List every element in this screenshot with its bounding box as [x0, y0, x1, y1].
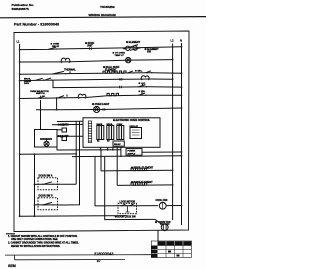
switch door 2: [42, 202, 54, 205]
wire EOC feeds from top left: [57, 120, 83, 122]
table stub line: [157, 230, 159, 241]
notes text: [8, 235, 79, 248]
connector marks rung5: [120, 86, 122, 89]
wire bottom long rung: [20, 215, 128, 218]
label surface unit: [85, 42, 95, 48]
breaker hump on rung6: [78, 94, 86, 98]
svg-text:K1: K1: [97, 141, 99, 143]
svg-text:✱ OVEN LIGHT: ✱ OVEN LIGHT: [92, 103, 110, 106]
switch S1 on rung1: [49, 47, 58, 50]
svg-text:BAKE: BAKE: [97, 123, 103, 126]
wire riser x104.7: [105, 157, 150, 220]
wire rung 1: [20, 47, 182, 50]
junction rung2-L2: [172, 59, 174, 61]
svg-text:CONV: CONV: [117, 124, 123, 126]
svg-text:✱ ELEMENT: ✱ ELEMENT: [126, 41, 141, 44]
switch on rung3 right: [128, 71, 135, 74]
wire L1 bus: [19, 44, 21, 216]
svg-text:SUPPLY: SUPPLY: [128, 153, 136, 155]
notes dash: [6, 233, 15, 235]
junction rung1-L1: [19, 49, 21, 51]
wire bake element rung: [117, 184, 172, 187]
junction y154 x76: [75, 153, 77, 155]
wire fan to N: [166, 205, 181, 207]
junction lamp rung N: [181, 107, 183, 109]
wire lampbox top stub: [57, 129, 62, 131]
svg-text:ELECTRONIC OVEN CONTROL: ELECTRONIC OVEN CONTROL: [113, 119, 151, 122]
svg-text:240V: 240V: [24, 82, 30, 85]
wire oven lamp rung: [36, 108, 182, 110]
oven lamp assembly box: [35, 130, 58, 148]
svg-text:RELAY: RELAY: [52, 45, 60, 48]
switch selector pole2: [38, 95, 47, 99]
lamp assembly bar: [40, 138, 52, 140]
door lock dashed box: [118, 203, 137, 213]
connector marks rung4: [119, 78, 123, 81]
junction rung3-N: [181, 72, 183, 74]
wire rung 2: [20, 60, 173, 62]
wire rung 6: [20, 95, 182, 98]
junction bottom rung L1: [19, 215, 21, 217]
element zigzag B on rung3: [115, 71, 126, 73]
junction y154 L1: [19, 153, 21, 155]
switch blade rung6 mid: [58, 94, 68, 98]
connector marks on that wire: [61, 135, 63, 138]
junction rung4-L2: [172, 78, 174, 80]
junction rung1-L2: [172, 46, 174, 48]
EOC display block: [130, 125, 142, 139]
svg-text:L1: L1: [17, 40, 21, 44]
element zigzag bake: [131, 183, 147, 185]
svg-text:K2: K2: [107, 141, 109, 143]
svg-text:5995268375: 5995268375: [12, 7, 29, 11]
junction rung3-L2: [172, 72, 174, 74]
header publication no text: [12, 3, 35, 11]
motor cooling fan: [159, 202, 166, 209]
wire rung 4: [20, 79, 173, 81]
connector marks on that wire: [62, 123, 64, 126]
svg-text:UNIT: UNIT: [87, 45, 93, 48]
label lamp box right top: [58, 124, 69, 139]
wire door switch bus x34.5: [34, 154, 36, 216]
EOC terminal strip left: [88, 121, 91, 143]
svg-text:10: 10: [97, 259, 101, 263]
svg-text:COOL FAN: COOL FAN: [156, 199, 168, 202]
junction y152 N: [181, 151, 183, 153]
connector blocks left of EOC: [62, 128, 67, 141]
wire selector drop to lamp rung: [41, 98, 57, 130]
transformer box below EOC: [126, 149, 142, 156]
junction door bus wires: [34, 184, 36, 186]
switch selector pole1: [36, 78, 53, 81]
svg-text:L2: L2: [171, 39, 175, 43]
junction rung6-N: [181, 94, 183, 96]
svg-text:REFER TO INSTALLATION INSTRUCT: REFER TO INSTALLATION INSTRUCTIONS.: [11, 245, 60, 248]
svg-text:TEMP LT: TEMP LT: [115, 55, 125, 57]
wire riser x95: [95, 157, 118, 206]
wire L1 lamp feed rung y154: [20, 153, 77, 155]
svg-text:DISPLAY: DISPLAY: [130, 125, 139, 128]
wire broil element rung: [101, 169, 173, 172]
junctions on y150: [100, 149, 102, 151]
junction broil L2: [172, 169, 174, 171]
wire y152 to N: [142, 151, 182, 153]
legend table: [151, 241, 191, 258]
junction fan N: [181, 205, 183, 207]
wire through door lock box: [118, 205, 158, 207]
junction rung5-N: [181, 86, 183, 88]
svg-text:T3F352B9: T3F352B9: [100, 5, 115, 9]
svg-text:WIRING DIAGRAM: WIRING DIAGRAM: [89, 13, 117, 17]
lamp OT indicator: [126, 57, 131, 62]
svg-text:THERMAL: THERMAL: [64, 68, 76, 71]
label broil block: [24, 79, 32, 85]
wire rung 3: [20, 73, 182, 75]
junction rung3-L1: [19, 73, 21, 75]
wire lampbox right to EOC: [57, 135, 83, 137]
wire lampbox to EOC upper: [52, 123, 83, 125]
EOC relay block 2: [107, 124, 114, 140]
wire riser x117.2 to bake rung: [116, 147, 118, 185]
junction x34.5 y154: [34, 153, 36, 155]
junction rung1-N: [181, 46, 183, 48]
wire EOC bottom bus y150: [57, 147, 121, 150]
wire riser x79.5: [64, 121, 80, 205]
breaker hump symbol on rung 2: [61, 58, 70, 63]
wire riser x101 to broil rung: [100, 150, 102, 171]
svg-text:Part Number - 318003043: Part Number - 318003043: [14, 22, 59, 26]
label oven temp: [113, 52, 126, 57]
svg-text:ELEMENT: ELEMENT: [105, 69, 117, 72]
header rule: [0, 17, 206, 18]
label dual element: [103, 66, 120, 72]
EOC small relay box: [113, 141, 124, 146]
junction selector risers: [40, 97, 42, 99]
wire rung 5: [56, 86, 182, 89]
door switch 2 dashed box: [38, 198, 58, 210]
wire riser x76: [75, 121, 77, 184]
bottom rule: [5, 255, 151, 260]
electronic oven control box: [83, 118, 160, 148]
element zigzag A on rung3: [103, 71, 114, 73]
svg-text:SWITCH: SWITCH: [36, 93, 45, 95]
svg-text:BROIL: BROIL: [107, 124, 114, 126]
label oven relay: [51, 43, 60, 48]
wire rung to N y156.5: [72, 155, 182, 158]
element zigzag broil: [131, 168, 147, 170]
EOC relay block 3: [117, 124, 124, 140]
switch thermal on rung3: [53, 71, 71, 74]
wire conv fan left: [150, 219, 161, 223]
EOC relay block 1: [97, 123, 104, 140]
switch door 1: [42, 182, 54, 185]
wire EOC drops: [101, 147, 121, 157]
element zigzag on rung6: [107, 93, 119, 95]
connector marks lamp rung: [103, 108, 105, 111]
motor conv fan: [160, 224, 169, 231]
switch T-blade on rung5: [139, 84, 148, 88]
label element sw: [145, 48, 160, 54]
svg-text:RELAY: RELAY: [114, 143, 121, 146]
door lock contacts: [121, 204, 135, 212]
relay under labels: [97, 141, 109, 143]
svg-text:SEM: SEM: [8, 264, 16, 268]
wire elbow rung4-rung5: [53, 80, 56, 88]
breaker hump on rung4: [141, 76, 149, 80]
junction rung2-L1: [19, 61, 21, 63]
switch on rung3 far right: [146, 71, 153, 74]
label oven selector: [30, 91, 49, 95]
wire N bus: [181, 43, 183, 225]
junction y156.5 N: [181, 155, 183, 157]
lamp in box: [44, 139, 49, 146]
wire L2 bus: [172, 44, 174, 221]
schematic frame: [14, 31, 189, 232]
infinite switch on rung1: [123, 45, 141, 51]
wire through door switch 1: [35, 183, 77, 185]
wire through door switch 2: [35, 204, 65, 206]
junction lamp rung: [56, 109, 58, 111]
switch T-blade rung6 right: [139, 92, 147, 96]
junction rung6-L1: [19, 98, 21, 100]
svg-text:✱ MDL: ✱ MDL: [135, 70, 143, 73]
junction bake L2: [172, 184, 174, 186]
svg-text:DOOR SW B: DOOR SW B: [39, 194, 53, 197]
svg-text:DOOR SW A: DOOR SW A: [39, 175, 53, 178]
door switch 1 dashed box: [38, 178, 58, 190]
junction rung4-L1: [19, 80, 21, 82]
lamp oven light: [94, 106, 100, 112]
svg-text:N: N: [180, 39, 182, 43]
connector marks rung1: [90, 47, 92, 50]
